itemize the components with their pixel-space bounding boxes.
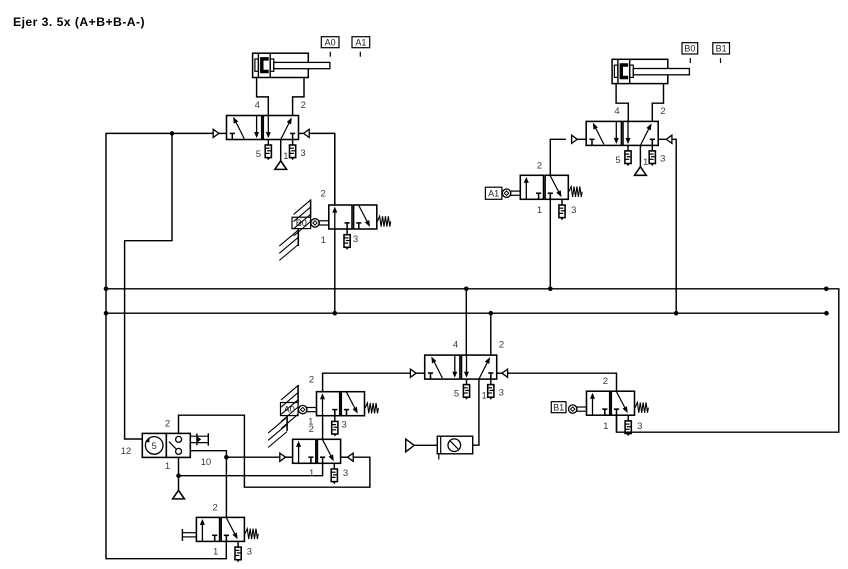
svg-text:5: 5 (152, 441, 157, 452)
svg-text:2: 2 (301, 100, 306, 111)
svg-text:B0: B0 (684, 44, 695, 54)
svg-text:3: 3 (343, 468, 348, 479)
svg-text:10: 10 (201, 457, 212, 468)
svg-text:1: 1 (309, 468, 314, 479)
svg-text:2: 2 (309, 375, 314, 386)
svg-text:1: 1 (213, 547, 218, 558)
svg-text:2: 2 (603, 376, 608, 387)
svg-text:A1: A1 (488, 188, 499, 198)
svg-text:4: 4 (453, 340, 458, 351)
svg-text:2: 2 (660, 106, 665, 117)
svg-text:B1: B1 (553, 402, 564, 412)
svg-text:12: 12 (121, 446, 132, 457)
svg-text:3: 3 (637, 421, 642, 432)
svg-text:3: 3 (571, 205, 576, 216)
svg-text:2: 2 (309, 424, 314, 435)
svg-text:Ejer 3. 5x (A+B+B-A-): Ejer 3. 5x (A+B+B-A-) (13, 15, 145, 29)
svg-text:5: 5 (615, 155, 620, 166)
svg-text:5: 5 (454, 389, 459, 400)
svg-text:2: 2 (165, 419, 170, 430)
svg-text:3: 3 (247, 547, 252, 558)
svg-text:3: 3 (353, 234, 358, 245)
svg-text:1: 1 (482, 391, 487, 402)
svg-text:2: 2 (213, 502, 218, 513)
svg-text:5: 5 (256, 149, 261, 160)
svg-text:4: 4 (614, 106, 619, 117)
svg-text:3: 3 (300, 148, 305, 159)
svg-text:2: 2 (321, 189, 326, 200)
svg-text:1: 1 (603, 421, 608, 432)
svg-text:3: 3 (499, 387, 504, 398)
svg-text:B0: B0 (296, 218, 307, 228)
svg-text:1: 1 (283, 151, 288, 162)
svg-text:A1: A1 (355, 37, 366, 47)
svg-text:A0: A0 (325, 37, 336, 47)
svg-text:1: 1 (165, 461, 170, 472)
svg-text:3: 3 (660, 154, 665, 165)
svg-text:1: 1 (321, 235, 326, 246)
svg-text:A0: A0 (284, 404, 295, 414)
svg-text:2: 2 (537, 160, 542, 171)
svg-text:1: 1 (643, 157, 648, 168)
svg-text:2: 2 (499, 340, 504, 351)
svg-text:1: 1 (537, 205, 542, 216)
svg-text:B1: B1 (716, 44, 727, 54)
svg-text:4: 4 (255, 100, 260, 111)
svg-text:3: 3 (342, 420, 347, 431)
